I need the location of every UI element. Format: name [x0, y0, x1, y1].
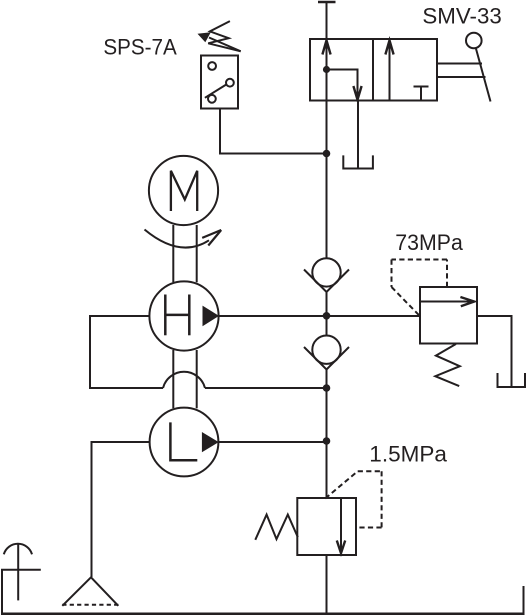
check valve V1 — [304, 258, 349, 292]
valve SMV-33 blocked port — [414, 87, 429, 101]
wire check valve V2 to node C — [326, 368, 328, 441]
check valve V2 — [304, 336, 349, 370]
pressure switch SPS-7A — [201, 56, 238, 109]
valve SMV-33 left position flow arrow up — [322, 40, 330, 101]
wire pump L outlet to node D — [218, 441, 326, 443]
wire check valve V1 to node B — [326, 291, 328, 336]
motor M — [149, 156, 218, 225]
wire node D to relief valve RV2 — [326, 441, 328, 498]
rotation arrow under motor — [145, 230, 222, 248]
wire relief valve RV2 to tank — [326, 555, 328, 614]
relief valve RV2 spring — [255, 515, 297, 540]
node A (junction dot) — [323, 150, 331, 158]
shaft motor to pump H — [173, 225, 196, 282]
wire pump L suction to strainer — [92, 442, 151, 577]
tank (reservoir) bottom — [1, 570, 525, 613]
pump L — [150, 408, 219, 477]
svg-text:73MPa: 73MPa — [395, 230, 463, 255]
relief valve RV1 pilot dashed line — [392, 260, 448, 317]
valve internal node (dot) — [323, 66, 330, 73]
relief valve RV2 1.5MPa body — [297, 498, 356, 555]
svg-text:SPS-7A: SPS-7A — [103, 35, 177, 60]
tank below valve SMV-33 — [343, 101, 373, 169]
wire pump H left loop with crossover hump to node C — [90, 316, 327, 388]
valve SMV-33 left position branch arrow down — [327, 70, 362, 100]
tank port cap at top — [318, 1, 336, 4]
strainer (filter) — [62, 577, 118, 606]
wire from pressure switch to node A — [220, 109, 327, 154]
breather / filler on tank — [1, 544, 41, 601]
wire top cap to valve — [326, 2, 328, 39]
relief valve RV1 spring — [435, 344, 460, 386]
wire main line valve to check valve V1 — [326, 101, 328, 259]
shaft pump H to pump L — [173, 350, 196, 408]
valve SMV-33 manual lever — [437, 33, 491, 102]
wire pump H outlet to node B and relief valve RV1 — [219, 315, 421, 317]
relief valve RV2 pilot dashed line — [325, 471, 381, 527]
wire relief valve RV1 outlet to tank T1 — [477, 316, 512, 387]
pump H — [149, 281, 219, 350]
node C (junction dot) — [323, 384, 331, 392]
valve SMV-33 body — [310, 39, 437, 101]
valve SMV-33 right position flow arrow up — [385, 40, 393, 101]
svg-text:1.5MPa: 1.5MPa — [369, 441, 447, 466]
adjustable spring with arrow on SPS-7A — [198, 21, 241, 51]
tank T1 — [498, 373, 526, 387]
node B (junction dot) — [323, 312, 331, 320]
relief valve RV1 73MPa body — [420, 287, 477, 344]
svg-text:SMV-33: SMV-33 — [422, 4, 501, 29]
node D (junction dot) — [323, 437, 331, 445]
